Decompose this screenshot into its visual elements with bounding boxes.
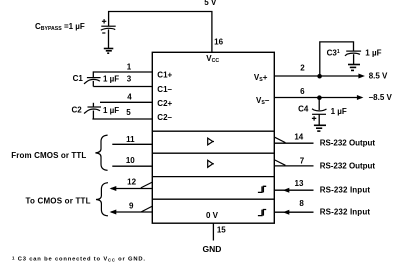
internal divider 4 — [152, 198, 274, 200]
wire 5V rail to pin 16 and Cbypass — [109, 11, 212, 52]
internal divider 2 — [152, 152, 274, 154]
capacitor C1 — [84, 71, 101, 86]
svg-text:10: 10 — [126, 156, 135, 165]
pin 15 wire to GND — [212, 223, 214, 240]
svg-text:11: 11 — [126, 135, 135, 144]
pin 7 wire with driver output slash — [274, 160, 313, 166]
svg-text:1 µF: 1 µF — [365, 49, 381, 58]
svg-text:1 C3 can be connected to VCC o: 1 C3 can be connected to VCC or GND. — [12, 255, 145, 262]
pin 8 wire with input arrow — [274, 210, 313, 215]
wire C3 branch — [320, 42, 354, 76]
receiver R1 pulse symbol — [258, 186, 266, 192]
svg-text:C1: C1 — [73, 74, 84, 83]
svg-text:C1+: C1+ — [157, 71, 172, 80]
ground (C4) — [314, 125, 326, 131]
svg-text:0 V: 0 V — [206, 211, 219, 220]
svg-text:12: 12 — [127, 177, 136, 186]
pin 5 wire — [92, 118, 152, 120]
pin 11 wire — [112, 143, 152, 145]
svg-text:1 µF: 1 µF — [103, 106, 119, 115]
svg-text:VS–: VS– — [256, 96, 270, 106]
svg-text:9: 9 — [129, 201, 134, 210]
svg-text:1 µF: 1 µF — [103, 74, 119, 83]
node junction dot pin6 — [317, 95, 322, 100]
node junction dot pin2 — [317, 74, 322, 79]
pin 2 wire with arrow to 8.5V — [274, 74, 365, 79]
pin 3 wire — [93, 86, 152, 88]
pin 1 wire — [93, 71, 152, 73]
svg-text:1 µF: 1 µF — [331, 107, 347, 116]
ground (C3) — [348, 65, 360, 71]
driver U1A triangle — [208, 138, 214, 145]
svg-text:6: 6 — [300, 87, 305, 96]
pin 12 wire with output arrow — [110, 182, 153, 191]
svg-text:GND: GND — [203, 244, 222, 254]
svg-text:RS-232 Input: RS-232 Input — [320, 208, 371, 217]
svg-text:13: 13 — [295, 179, 304, 188]
svg-text:C31: C31 — [327, 48, 340, 57]
svg-text:2: 2 — [300, 63, 305, 72]
driver U1B triangle — [208, 160, 214, 167]
svg-text:C2+: C2+ — [157, 99, 172, 108]
capacitor C3 — [345, 51, 361, 64]
capacitor C4 — [312, 98, 327, 126]
capacitor C2 — [84, 103, 101, 119]
svg-text:From CMOS or TTL: From CMOS or TTL — [11, 151, 86, 160]
svg-text:16: 16 — [214, 38, 223, 47]
svg-text:RS-232 Output: RS-232 Output — [320, 161, 376, 170]
svg-text:VS+: VS+ — [254, 73, 268, 83]
brace for From CMOS or TTL — [95, 135, 107, 170]
svg-text:To CMOS or TTL: To CMOS or TTL — [26, 197, 91, 206]
svg-text:5 V: 5 V — [204, 0, 217, 7]
pin 9 wire with output arrow — [110, 206, 153, 214]
pin 6 wire with arrow to -8.5V — [274, 95, 363, 100]
IC U1 MAX232 outline — [152, 52, 274, 223]
svg-text:C2–: C2– — [157, 113, 172, 122]
svg-text:5: 5 — [126, 108, 131, 117]
receiver R2 pulse symbol — [258, 210, 266, 216]
ground (Cbypass) — [104, 49, 114, 54]
svg-text:RS-232 Output: RS-232 Output — [320, 139, 376, 148]
internal divider 1 — [152, 130, 274, 132]
pin 4 wire — [100, 101, 152, 103]
svg-text:RS-232 Input: RS-232 Input — [320, 186, 371, 195]
pin 13 wire with input arrow — [274, 188, 313, 193]
brace for To CMOS or TTL — [96, 183, 108, 216]
svg-text:C2: C2 — [72, 106, 83, 115]
svg-text:3: 3 — [127, 75, 132, 84]
svg-text:14: 14 — [294, 133, 303, 142]
capacitor CBYPASS — [101, 19, 116, 48]
svg-text:1: 1 — [127, 62, 132, 71]
svg-text:−8.5 V: −8.5 V — [369, 93, 393, 102]
svg-text:C1–: C1– — [157, 85, 172, 94]
pin 14 wire with driver output slash — [274, 137, 313, 143]
svg-text:VCC: VCC — [206, 54, 219, 64]
svg-text:15: 15 — [217, 225, 226, 234]
svg-text:4: 4 — [127, 92, 132, 101]
svg-text:8: 8 — [299, 199, 304, 208]
svg-text:8.5 V: 8.5 V — [369, 72, 388, 81]
svg-text:C4: C4 — [298, 104, 309, 113]
pin 10 wire — [112, 165, 152, 167]
svg-text:CBYPASS =1 µF: CBYPASS =1 µF — [35, 22, 85, 32]
svg-text:7: 7 — [300, 157, 305, 166]
internal divider 3 — [152, 176, 274, 178]
